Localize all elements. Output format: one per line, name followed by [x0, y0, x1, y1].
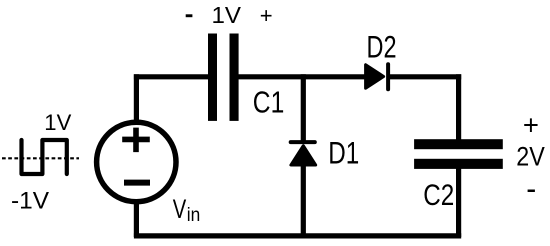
minus sign inside source [124, 180, 150, 186]
plus sign inside source [122, 128, 150, 153]
svg-text:in: in [187, 204, 201, 226]
diode D2 triangle (pointing right) [366, 65, 384, 89]
capacitor C1 right plate [230, 34, 239, 121]
diode D2 cathode bar [386, 64, 390, 89]
svg-text:D1: D1 [328, 135, 359, 171]
diode D1 cathode bar [291, 140, 315, 144]
svg-text:1V: 1V [212, 2, 242, 28]
voltage source V_in circle [97, 122, 176, 201]
capacitor C2 top plate [414, 139, 503, 149]
svg-text:1V: 1V [44, 110, 71, 135]
capacitor C1 left plate [208, 34, 217, 121]
wire: top horizontal from D2 to right corner [387, 74, 461, 79]
wire: right branch upper segment [456, 74, 461, 144]
wire: right branch lower segment [456, 164, 461, 237]
svg-text:C2: C2 [423, 179, 454, 212]
wire: riser from source top to C1 [134, 74, 139, 124]
wire: D1 branch lower segment [301, 164, 306, 237]
wire: top horizontal left segment to C1 [134, 74, 214, 79]
wire: source bottom stub [134, 200, 139, 237]
zero-axis dashed line [2, 157, 79, 159]
capacitor C2 bottom plate [414, 159, 503, 169]
svg-text:+: + [523, 110, 539, 141]
square-wave input symbol [22, 140, 67, 174]
diode D1 triangle (pointing up) [291, 146, 316, 165]
svg-text:2V: 2V [516, 142, 545, 172]
svg-text:-1V: -1V [11, 187, 49, 214]
wire: bottom return [134, 233, 461, 238]
svg-text:V: V [173, 194, 187, 224]
svg-text:D2: D2 [367, 30, 397, 65]
label - (C1 left polarity) [186, 14, 193, 17]
svg-text:+: + [260, 3, 273, 28]
svg-text:C1: C1 [253, 84, 284, 119]
wire: D1 branch upper segment [301, 74, 306, 142]
label - (output polarity bottom) [528, 190, 535, 193]
wire: top horizontal from C1 to D2 [232, 74, 367, 79]
